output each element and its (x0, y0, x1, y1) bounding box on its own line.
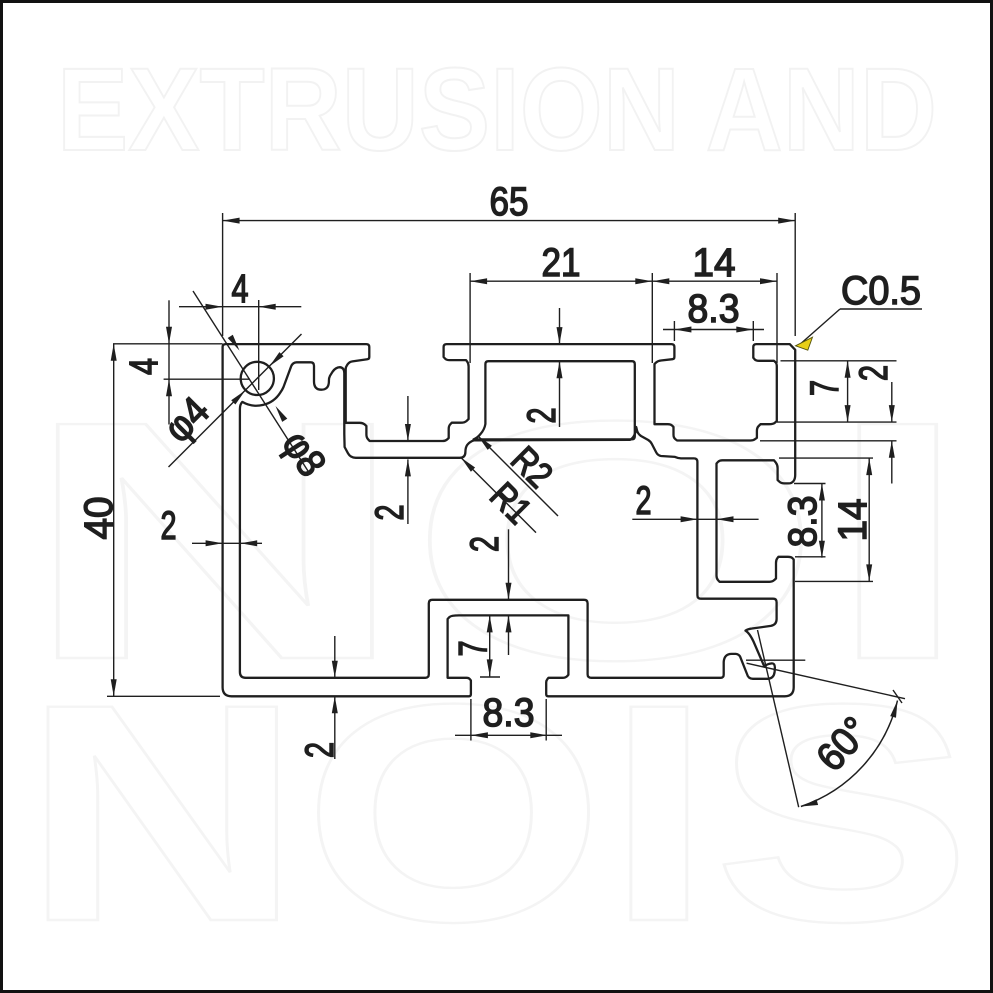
dimension 7 right slot depth (777, 361, 897, 422)
svg-text:8.3: 8.3 (483, 691, 535, 735)
radius leader R1 (461, 458, 539, 533)
chamfer callout C0.5 with yellow arrow (796, 269, 923, 350)
dimension 14 right slot depth (779, 458, 875, 581)
svg-text:2: 2 (298, 742, 342, 758)
svg-text:2: 2 (520, 408, 564, 424)
phi4 hole circle (241, 362, 274, 395)
dimension 4 vertical boss offset (113, 300, 250, 424)
dimension phi8 diagonal (193, 291, 334, 484)
dimension 40 height (77, 344, 220, 697)
svg-text:65: 65 (490, 180, 529, 224)
dimension 2 right wall (760, 365, 897, 484)
dimension 2 chamber wall (632, 479, 758, 523)
dimension 2 bottom wall (298, 636, 342, 759)
dimension 2 left wall (161, 504, 263, 548)
svg-text:7: 7 (452, 641, 496, 657)
svg-text:2: 2 (368, 505, 412, 521)
dimension 2 slot1 floor thickness (368, 396, 412, 524)
svg-text:2: 2 (852, 365, 896, 381)
dimension 8.3 bottom slot mouth (455, 691, 562, 741)
dimension 4 horizontal boss offset (179, 267, 301, 390)
dimension 21 (470, 241, 652, 363)
svg-text:14: 14 (831, 499, 875, 542)
svg-text:4: 4 (232, 267, 249, 311)
dimension 2 slot2 top wall (520, 308, 564, 427)
dimension 65 top width (223, 180, 796, 336)
dimension 60 degree slot angle (746, 630, 905, 807)
svg-text:2: 2 (161, 504, 177, 548)
svg-text:40: 40 (77, 497, 121, 540)
closed chamber slot2 (474, 361, 635, 439)
extrusion inner cavity outline with corner screw boss and 60-degree screw channel (240, 362, 777, 679)
svg-text:C0.5: C0.5 (841, 269, 921, 313)
dimension phi4 diagonal (156, 334, 302, 467)
dimension 14 top (652, 241, 777, 363)
svg-text:8.3: 8.3 (688, 287, 740, 331)
svg-text:21: 21 (542, 241, 581, 285)
dimension 7 bottom slot depth (452, 615, 501, 677)
svg-text:EXTRUSION AND: EXTRUSION AND (57, 44, 937, 176)
dimension 8.3 right slot mouth (781, 484, 826, 558)
svg-text:8.3: 8.3 (781, 496, 825, 548)
dimension 2 bottom slot ceiling wall (463, 529, 512, 655)
svg-text:2: 2 (636, 479, 652, 523)
extrusion outer profile outline (223, 344, 796, 696)
dimension 8.3 top slot mouth (663, 287, 764, 341)
svg-text:7: 7 (803, 380, 847, 396)
svg-text:4: 4 (122, 358, 166, 375)
svg-text:2: 2 (463, 536, 507, 552)
svg-text:14: 14 (693, 241, 736, 285)
radius leader R2 (478, 436, 561, 516)
